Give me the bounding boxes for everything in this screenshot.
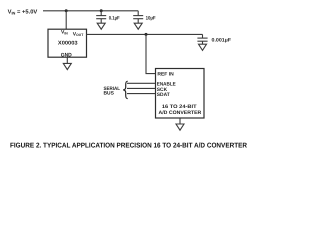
ground below U1 — [63, 57, 71, 69]
wire SCK — [127, 87, 156, 89]
svg-text:BUS: BUS — [104, 91, 115, 97]
svg-text:GND: GND — [61, 52, 72, 58]
wire drop to REF IN — [146, 34, 156, 73]
capacitor C3 0.001uF — [197, 34, 207, 41]
svg-text:0.1µF: 0.1µF — [109, 15, 120, 21]
wire drop to regulator VIN — [65, 11, 67, 29]
brace serial bus — [123, 81, 128, 98]
svg-text:VIN = +5.0V: VIN = +5.0V — [8, 8, 38, 15]
node junction at REF IN drop — [145, 33, 148, 36]
wire top supply rail — [43, 10, 138, 12]
svg-text:0.001µF: 0.001µF — [212, 38, 232, 44]
wire SDAT — [127, 93, 156, 95]
svg-text:ENABLE: ENABLE — [157, 81, 177, 87]
svg-text:X00003: X00003 — [58, 41, 78, 47]
svg-text:FIGURE 2. TYPICAL APPLICATION: FIGURE 2. TYPICAL APPLICATION PRECISION … — [10, 142, 247, 150]
svg-text:SDAT: SDAT — [157, 92, 170, 98]
ground below C3 — [199, 41, 207, 50]
wire ENABLE — [127, 82, 156, 84]
ground below U2 — [176, 119, 184, 131]
ground below C2 — [134, 19, 142, 30]
capacitor C2 10uF — [133, 11, 143, 19]
IC U2 A/D converter box — [156, 69, 205, 119]
svg-text:10µF: 10µF — [146, 15, 156, 21]
node junction at C1 — [100, 9, 103, 12]
ground below C1 — [97, 19, 105, 30]
wire VOUT rail — [87, 33, 203, 35]
IC U1 regulator X00003 box — [48, 29, 87, 57]
svg-text:REF IN: REF IN — [157, 72, 174, 78]
svg-text:A/D CONVERTER: A/D CONVERTER — [159, 110, 202, 116]
capacitor C1 0.1uF — [96, 11, 106, 19]
node junction at VIN pin drop — [65, 9, 68, 12]
svg-text:SCK: SCK — [157, 87, 168, 93]
